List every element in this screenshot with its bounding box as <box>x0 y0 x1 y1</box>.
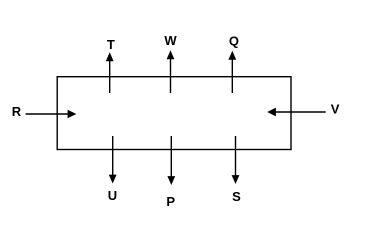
arrow V (leftward, in through right edge) <box>267 108 326 117</box>
svg-text:S: S <box>232 189 241 204</box>
svg-text:Q: Q <box>229 33 239 48</box>
arrow Q (upward, out through top edge) <box>228 51 236 93</box>
svg-text:R: R <box>12 104 22 119</box>
arrow W (upward, out through top edge) <box>167 50 175 93</box>
svg-text:V: V <box>331 101 340 116</box>
svg-text:W: W <box>164 33 177 48</box>
svg-text:T: T <box>107 37 115 52</box>
arrow R (rightward, in through left edge) <box>26 110 77 118</box>
arrow S (downward, out through bottom edge) <box>232 136 240 184</box>
svg-text:U: U <box>108 188 117 203</box>
arrow T (upward, out through top edge) <box>106 52 114 93</box>
arrow U (downward, out through bottom edge) <box>109 136 117 184</box>
svg-text:P: P <box>166 194 175 209</box>
process box (rectangle) <box>57 77 291 150</box>
arrow P (downward, out through bottom edge) <box>167 136 175 185</box>
